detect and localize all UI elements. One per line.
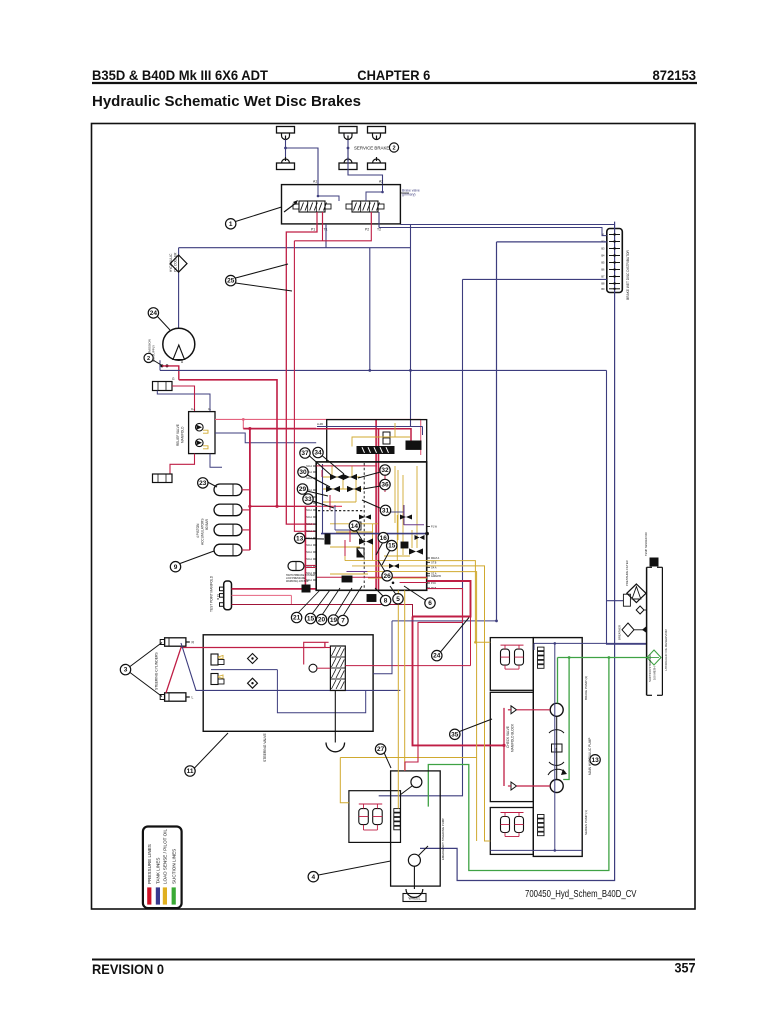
svg-text:M4.A: M4.A [306,558,312,561]
svg-text:B4: B4 [601,254,605,258]
svg-text:M4LP.A: M4LP.A [431,557,440,560]
svg-text:RELIEF VALVE: RELIEF VALVE [176,424,180,446]
svg-text:EMERGENCY STEERING PUMP: EMERGENCY STEERING PUMP [441,818,445,860]
svg-text:30: 30 [299,469,307,476]
svg-text:L: L [192,696,194,700]
svg-text:7: 7 [341,618,345,625]
svg-text:P1: P1 [311,228,315,232]
svg-text:M4.A: M4.A [306,509,312,512]
svg-text:15: 15 [307,616,315,623]
svg-text:B7: B7 [601,275,605,279]
svg-text:33: 33 [304,496,312,503]
svg-text:A1: A1 [313,180,317,184]
svg-text:GT.B: GT.B [431,561,437,564]
svg-text:Hydraulic Schematic Wet Disc B: Hydraulic Schematic Wet Disc Brakes [92,94,361,110]
svg-text:MANIFOLD: MANIFOLD [181,426,185,443]
svg-text:3: 3 [124,667,128,674]
svg-text:23: 23 [199,480,207,487]
svg-text:29: 29 [299,486,307,493]
svg-text:37: 37 [301,450,309,457]
svg-text:100 MESH: 100 MESH [653,666,657,680]
svg-text:20: 20 [318,617,326,624]
svg-text:PRESSURE LINES: PRESSURE LINES [147,844,152,884]
svg-text:BREATHER: BREATHER [618,625,622,640]
svg-text:C-: C- [208,407,211,411]
svg-text:4: 4 [311,874,315,881]
svg-text:OIL COOLER: OIL COOLER [174,252,178,272]
svg-text:35: 35 [451,731,459,738]
svg-text:11: 11 [187,768,194,775]
svg-text:31: 31 [382,508,390,515]
svg-text:80 BAR: 80 BAR [205,518,209,530]
svg-text:C+: C+ [191,407,195,411]
svg-text:2: 2 [392,146,395,152]
svg-text:WHEEL: WHEEL [408,897,420,901]
svg-text:19: 19 [330,617,338,624]
svg-text:BRAKE PUMP (2): BRAKE PUMP (2) [584,676,588,700]
svg-text:G4.A: G4.A [431,566,437,569]
svg-text:HYDRAULIC: HYDRAULIC [169,253,173,272]
svg-text:A2: A2 [379,180,383,184]
svg-text:T2: T2 [377,228,381,232]
svg-text:M4.A: M4.A [306,465,312,468]
svg-text:B35D & B40D Mk III 6X6 ADT: B35D & B40D Mk III 6X6 ADT [92,67,268,83]
svg-text:M4.A: M4.A [306,523,312,526]
svg-text:14: 14 [351,523,359,530]
svg-text:CHAPTER 6: CHAPTER 6 [357,67,430,83]
svg-text:SUCTION LINES: SUCTION LINES [171,849,176,884]
svg-text:B5: B5 [601,261,605,265]
svg-text:ACCUMULATORS: ACCUMULATORS [201,519,205,545]
svg-text:357: 357 [675,960,696,976]
svg-text:SERIES PUMP (1): SERIES PUMP (1) [584,810,588,835]
svg-text:16: 16 [380,535,388,542]
svg-text:SUCTION STRAINER: SUCTION STRAINER [648,654,652,682]
svg-text:36: 36 [381,482,389,489]
svg-text:1: 1 [229,221,233,228]
svg-text:B8: B8 [601,282,605,286]
svg-text:21: 21 [293,615,301,622]
svg-text:TEST POINT MANIFOLD: TEST POINT MANIFOLD [210,575,214,612]
svg-text:24: 24 [433,653,441,660]
svg-text:CHECK VALVE: CHECK VALVE [506,726,510,748]
svg-text:MANIFOLD BLOCK: MANIFOLD BLOCK [511,723,515,752]
svg-text:A-06: A-06 [317,422,323,426]
svg-text:9: 9 [174,564,178,571]
svg-text:8: 8 [384,598,388,605]
svg-text:M4.A: M4.A [306,544,312,547]
svg-text:27: 27 [377,746,385,753]
svg-text:32: 32 [381,467,389,474]
svg-text:25: 25 [227,278,235,285]
svg-text:2: 2 [147,356,150,362]
svg-text:4 PISTON: 4 PISTON [196,523,200,538]
svg-text:M4.A: M4.A [306,551,312,554]
svg-text:REVISION 0: REVISION 0 [92,961,164,977]
svg-text:BRAKE WET DISC DISTRIBUTOR: BRAKE WET DISC DISTRIBUTOR [626,249,630,299]
svg-text:M4.A: M4.A [306,516,312,519]
svg-text:26: 26 [383,573,391,580]
svg-text:5: 5 [396,596,400,603]
svg-text:PRESSURE FILTER: PRESSURE FILTER [625,560,629,586]
svg-text:P2: P2 [365,228,369,232]
svg-text:LOAD SENSE / PILOT OIL: LOAD SENSE / PILOT OIL [163,828,168,884]
svg-text:STEERING CYLINDERS: STEERING CYLINDERS [155,652,159,690]
svg-text:6: 6 [428,600,432,607]
svg-text:(primary): (primary) [402,193,416,197]
svg-text:B3: B3 [601,247,605,251]
svg-text:M P1: M P1 [216,593,220,600]
svg-text:TANK LINES: TANK LINES [156,858,161,884]
svg-text:13: 13 [296,535,304,542]
svg-text:34: 34 [314,450,322,457]
svg-text:SERVICE BRAKES: SERVICE BRAKES [354,146,392,151]
svg-text:A4MLP.B: A4MLP.B [431,575,441,578]
svg-text:P1.W: P1.W [431,526,438,529]
svg-text:TEMP SENDER 90C: TEMP SENDER 90C [644,532,648,556]
svg-text:STEERING VALVE: STEERING VALVE [263,733,267,762]
svg-text:WARNING) 105 BAR: WARNING) 105 BAR [286,580,309,583]
svg-text:700450_Hyd_Schem_B40D_CV: 700450_Hyd_Schem_B40D_CV [525,888,637,900]
svg-text:HYDRAULIC OIL RESERVOIR: HYDRAULIC OIL RESERVOIR [664,628,668,670]
svg-text:15: 15 [388,543,396,550]
svg-text:872153: 872153 [653,67,697,83]
svg-text:B9: B9 [601,287,605,291]
svg-text:24: 24 [150,310,158,317]
svg-text:B6: B6 [601,268,605,272]
svg-text:13: 13 [591,757,599,764]
svg-text:M4.A: M4.A [306,530,312,533]
svg-text:P.04: P.04 [431,582,436,585]
